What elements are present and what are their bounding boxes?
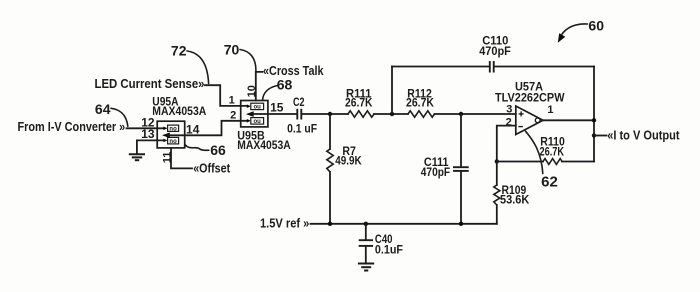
svg-text:2: 2 — [230, 109, 236, 121]
capacitor C111 — [460, 114, 462, 166]
svg-text:C2: C2 — [293, 95, 305, 109]
wire From I-V Converter to U95A pin12 — [127, 127, 164, 129]
resistor R7 — [329, 114, 331, 149]
wire pin10 to Cross Talk — [256, 72, 263, 101]
wire pin11 to Offset — [171, 148, 192, 169]
wire inverting input down — [497, 126, 516, 162]
svg-text:66: 66 — [210, 142, 226, 158]
svg-text:68: 68 — [277, 76, 293, 92]
svg-text:26.7K: 26.7K — [540, 145, 565, 159]
resistor R110 — [497, 161, 543, 163]
svg-text:49.9K: 49.9K — [335, 154, 362, 168]
wire R112 to op-amp pin3 — [435, 113, 516, 115]
node junction C40/rail — [364, 222, 368, 226]
node junction C111 — [459, 112, 463, 116]
svg-text:MAX4053A: MAX4053A — [152, 104, 206, 118]
U95A common arrow pin14 — [162, 133, 170, 139]
svg-text:64: 64 — [95, 101, 111, 117]
node junction R7/rail — [328, 222, 332, 226]
wire pin13 to ground — [137, 140, 164, 153]
mux U95A body — [157, 121, 185, 148]
leader 62 — [526, 131, 543, 173]
mux U95B body — [241, 101, 268, 127]
svg-text:60: 60 — [588, 18, 604, 34]
svg-text:MAX4053A: MAX4053A — [237, 138, 291, 152]
svg-text:26.7K: 26.7K — [345, 95, 373, 109]
resistor R109 — [496, 162, 498, 186]
resistor R111 — [348, 111, 374, 117]
svg-text:53.6K: 53.6K — [500, 193, 530, 207]
svg-text:ou: ou — [254, 105, 262, 111]
svg-text:0.1uF: 0.1uF — [375, 242, 403, 256]
svg-text:1.5V ref »: 1.5V ref » — [260, 216, 309, 230]
node junction output tap — [592, 133, 596, 137]
wire R111 to R112 — [374, 113, 408, 115]
svg-text:14: 14 — [186, 123, 200, 137]
U95A switch contact top (no) — [163, 127, 167, 131]
svg-text:0.1 uF: 0.1 uF — [287, 122, 317, 136]
op-amp U57A — [516, 106, 543, 135]
leader 72 — [187, 51, 209, 84]
leader 68 — [263, 86, 278, 101]
leader 66 — [185, 145, 209, 151]
capacitor C110 — [490, 61, 494, 73]
svg-text:From I-V Converter »: From I-V Converter » — [18, 120, 126, 134]
svg-text:470pF: 470pF — [479, 44, 511, 58]
svg-text:ou: ou — [254, 119, 262, 125]
svg-text:LED Current Sense»: LED Current Sense» — [95, 77, 205, 91]
node junction output — [592, 118, 596, 122]
node junction C2/R7 — [328, 112, 332, 116]
U95A switch contact bottom (no) — [163, 139, 167, 143]
node junction feedback riser — [390, 112, 394, 116]
svg-text:70: 70 — [224, 42, 240, 58]
svg-text:1: 1 — [547, 104, 553, 116]
svg-text:3: 3 — [506, 104, 512, 116]
U95B common arrow pin15 — [246, 111, 254, 117]
leader 64 — [111, 108, 128, 126]
svg-text:13: 13 — [141, 127, 155, 141]
svg-text:15: 15 — [270, 101, 284, 115]
node junction R109/R110 — [495, 159, 499, 163]
svg-text:72: 72 — [171, 43, 187, 59]
svg-text:«Cross Talk: «Cross Talk — [263, 64, 324, 78]
svg-text:2: 2 — [506, 117, 512, 129]
wire feedback top — [392, 66, 594, 68]
svg-text:TLV2262CPW: TLV2262CPW — [495, 90, 565, 104]
capacitor C2 — [297, 109, 301, 120]
wire output bus — [593, 67, 595, 162]
wire LED Current Sense to U95B pin1 — [205, 85, 247, 106]
arrow 60 — [561, 24, 587, 35]
svg-text:470pF: 470pF — [421, 165, 450, 179]
wire op-amp output — [543, 119, 594, 121]
wire C2 to R111 — [302, 113, 348, 115]
svg-text:«I to V Output: «I to V Output — [607, 128, 680, 142]
wire feedback riser — [391, 67, 393, 115]
svg-text:26.7K: 26.7K — [406, 95, 434, 109]
svg-text:no: no — [169, 126, 177, 132]
leader 70 — [240, 50, 256, 71]
plus input mark — [519, 111, 524, 116]
svg-text:«Offset: «Offset — [193, 162, 231, 176]
ground C40 — [358, 264, 374, 271]
capacitor C40 — [365, 224, 367, 240]
U95B switch contact top (ou) — [247, 104, 251, 108]
wire to I to V Output — [594, 135, 607, 137]
minus input mark — [518, 126, 523, 128]
svg-text:62: 62 — [541, 174, 558, 191]
ground U95A — [129, 154, 145, 160]
wire 1.5V ref rail — [311, 223, 497, 225]
svg-text:no: no — [169, 139, 177, 145]
svg-text:1: 1 — [229, 94, 235, 106]
svg-text:11: 11 — [161, 152, 173, 164]
node junction C111/rail — [459, 222, 463, 226]
resistor R112 — [408, 111, 435, 117]
wire pin14 to U95B pin2 — [169, 121, 247, 136]
U95B switch contact bottom (ou) — [247, 119, 251, 123]
svg-text:10: 10 — [246, 85, 258, 97]
wire pin15 to C2 — [253, 113, 297, 115]
